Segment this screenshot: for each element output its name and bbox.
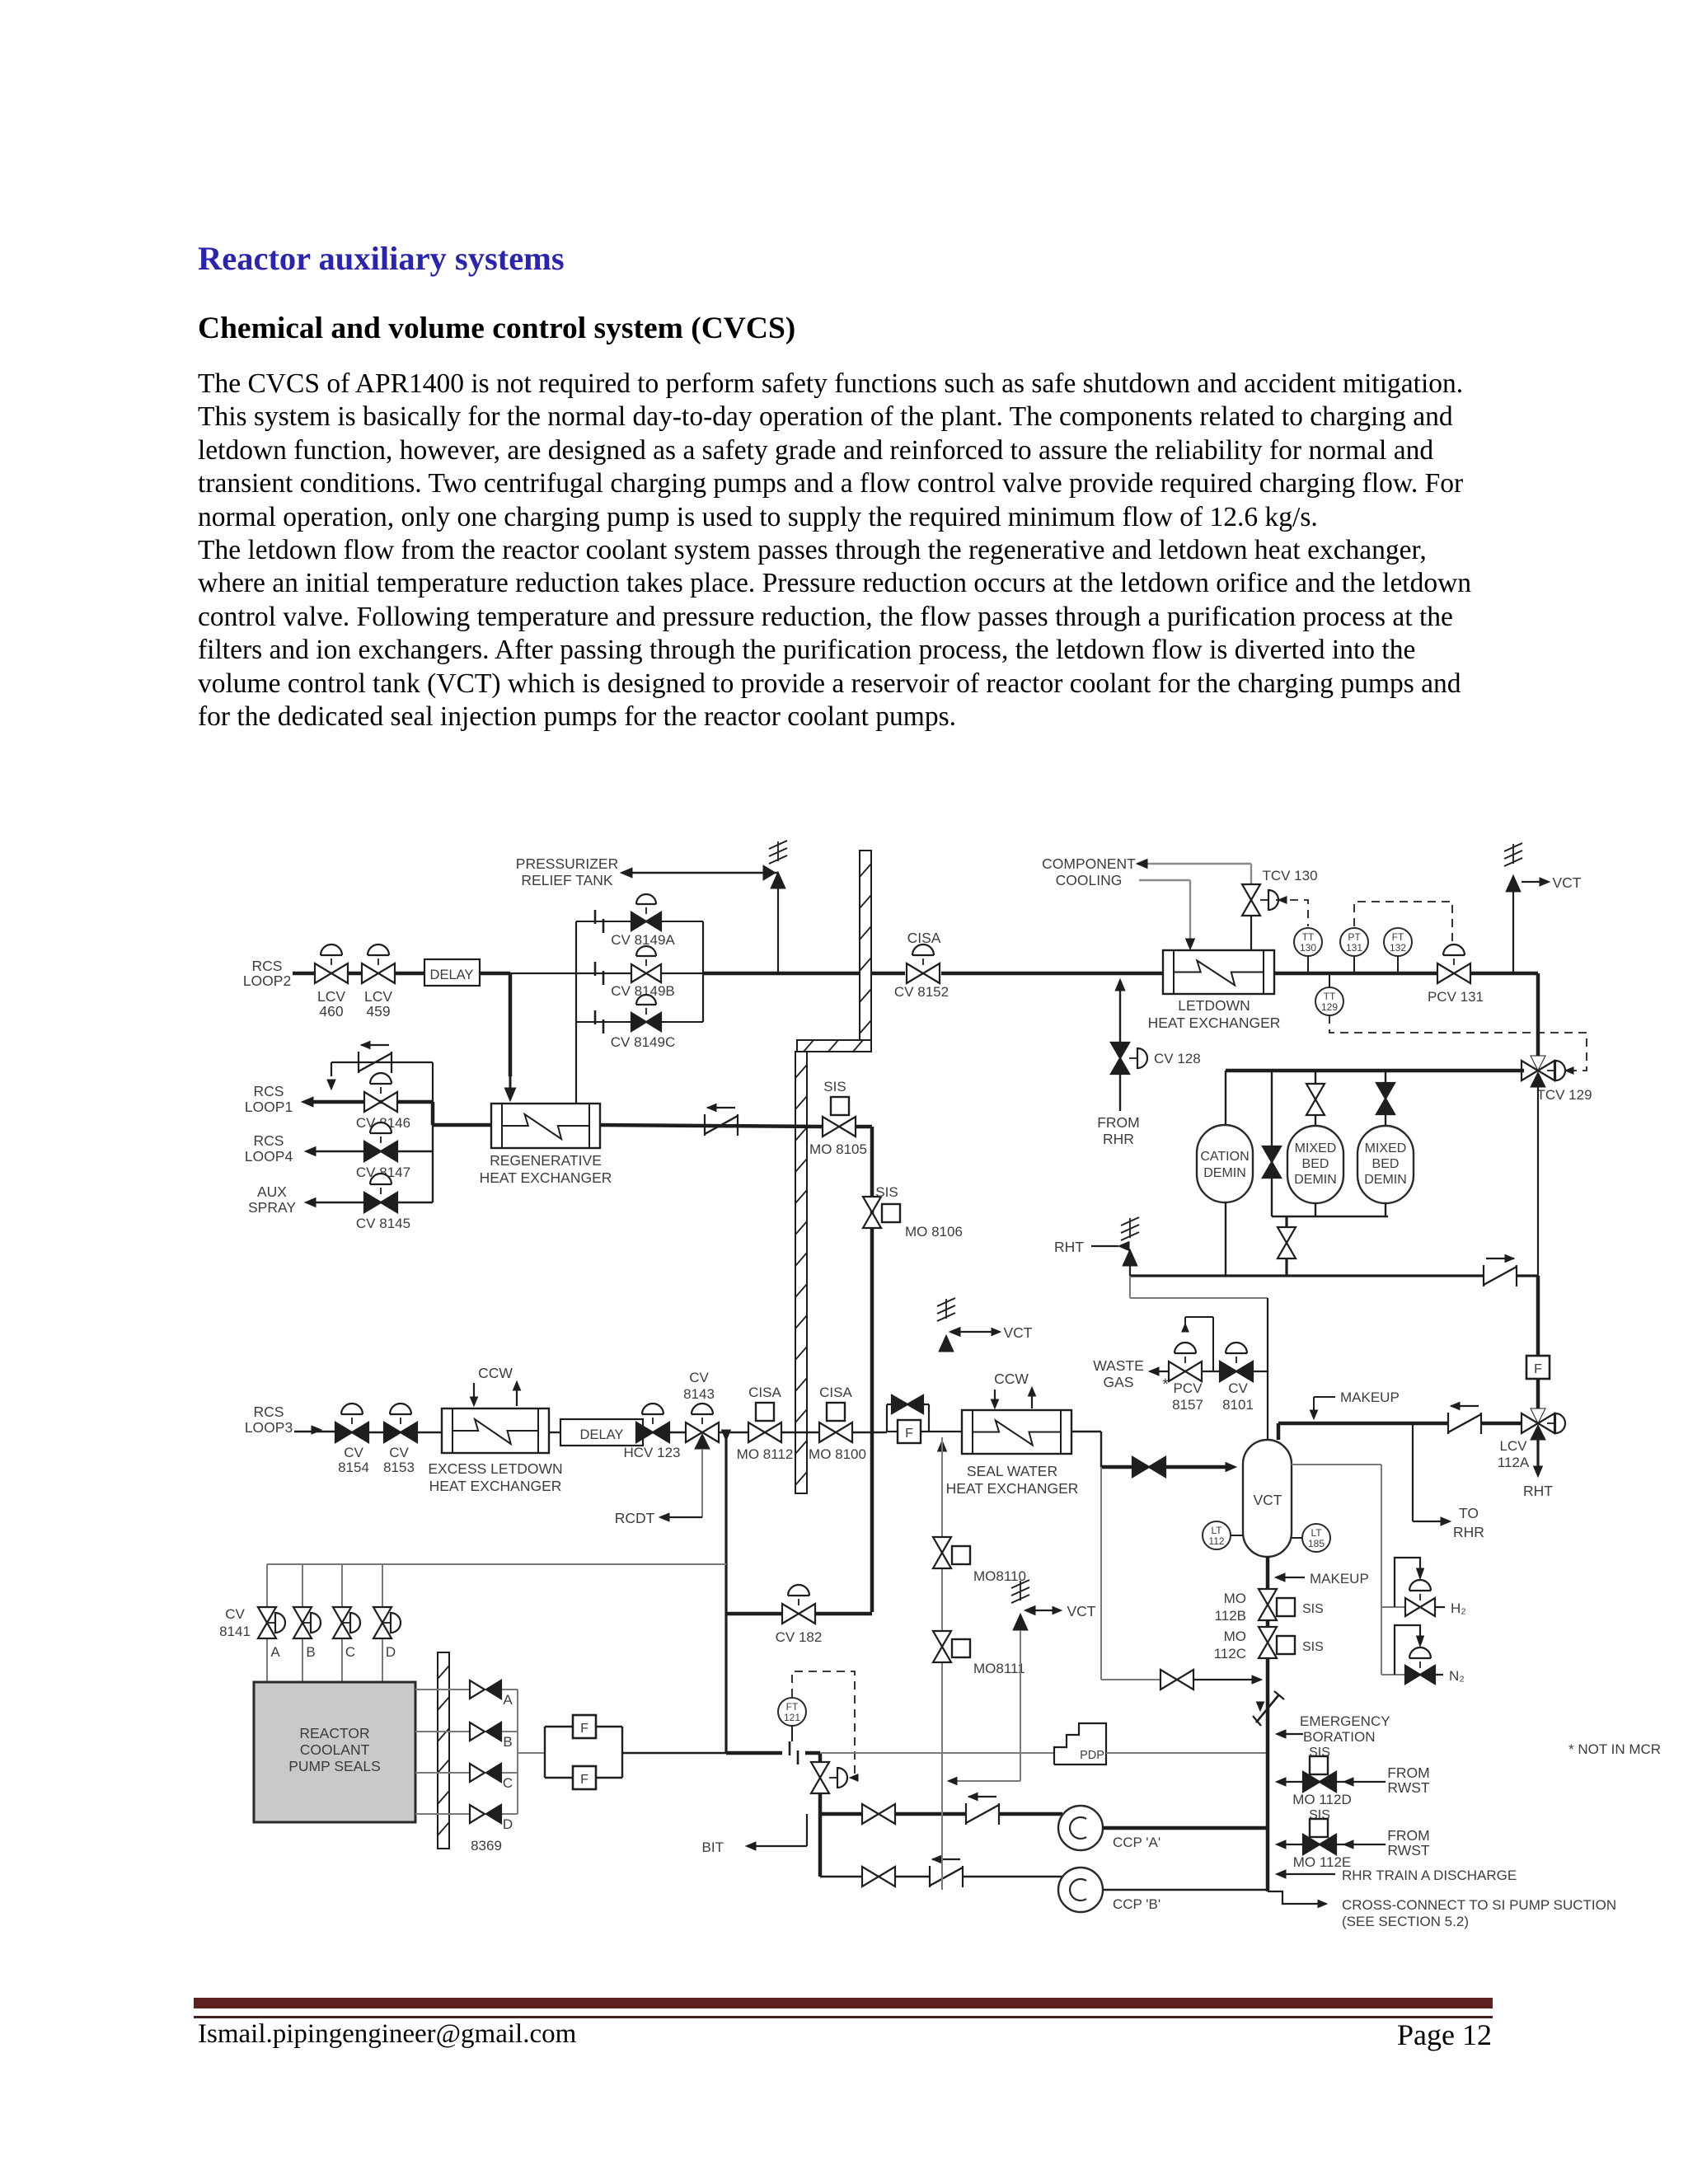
svg-text:129: 129 [1321, 1001, 1338, 1013]
valve CV 8143 (three-way) [686, 1422, 702, 1442]
wire RCS loop1 return [307, 1100, 433, 1104]
svg-text:LOOP1: LOOP1 [245, 1099, 293, 1115]
wire letdown from regen HX [600, 1125, 824, 1127]
instrument signal TT129 to TCV129 [1329, 1015, 1587, 1071]
wire AUX SPRAY [310, 1202, 433, 1203]
wire demin outlet [1130, 1274, 1484, 1277]
svg-text:459: 459 [366, 1003, 390, 1019]
svg-text:C: C [503, 1775, 513, 1791]
svg-text:(SEE SECTION 5.2): (SEE SECTION 5.2) [1342, 1914, 1469, 1929]
valve LCV 459 [362, 963, 378, 983]
delay coil DELAY [424, 959, 480, 986]
component cooling return [1139, 879, 1190, 881]
wire pressurizer relief branch [777, 888, 779, 973]
svg-text:MO8110: MO8110 [973, 1568, 1026, 1584]
wire cross-connect to SI pump suction [1268, 1891, 1322, 1904]
svg-text:CISA: CISA [819, 1385, 852, 1400]
valve [1306, 1084, 1325, 1099]
svg-text:HEAT EXCHANGER: HEAT EXCHANGER [946, 1480, 1079, 1497]
svg-text:8157: 8157 [1172, 1397, 1203, 1413]
svg-text:CV: CV [344, 1445, 363, 1460]
svg-text:FT: FT [786, 1701, 799, 1713]
wire seal return C [415, 1772, 470, 1774]
svg-text:PCV 131: PCV 131 [1428, 989, 1484, 1005]
check valve [1483, 1265, 1484, 1286]
wire CCP A discharge [1103, 1826, 1268, 1830]
svg-text:VCT: VCT [1254, 1492, 1282, 1508]
svg-text:BED: BED [1372, 1157, 1400, 1171]
wire arrow into regenerative HX [504, 1088, 515, 1101]
wire charging line [726, 1751, 782, 1755]
wire TCV129 bypass [1537, 1087, 1539, 1276]
orifice FT121 [789, 1741, 791, 1755]
svg-text:HEAT EXCHANGER: HEAT EXCHANGER [429, 1478, 562, 1494]
svg-text:LCV: LCV [364, 988, 392, 1005]
instrument signal TCV130 to TT130 [1276, 900, 1308, 926]
relief valve to VCT [1011, 1595, 1029, 1603]
svg-text:EMERGENCY: EMERGENCY [1300, 1713, 1390, 1729]
orifice branch C [576, 1021, 703, 1023]
relief valve to VCT (letdown line) [1512, 892, 1514, 973]
valve CV 8141B [293, 1607, 312, 1623]
svg-text:GAS: GAS [1104, 1374, 1134, 1390]
wire [431, 1102, 435, 1125]
wire [293, 972, 315, 976]
pump CCP A [1058, 1806, 1103, 1850]
junction charging line up-arrow [722, 1430, 731, 1441]
svg-text:MAKEUP: MAKEUP [1310, 1571, 1369, 1586]
component cooling supply arrow [1142, 863, 1251, 865]
check valve [929, 1866, 931, 1887]
valve [862, 1804, 879, 1824]
svg-text:PUMP SEALS: PUMP SEALS [288, 1758, 381, 1774]
svg-text:SIS: SIS [1302, 1602, 1324, 1616]
wire charging riser [724, 1437, 727, 1753]
valve N2 [1405, 1666, 1420, 1684]
svg-text:DELAY: DELAY [580, 1427, 624, 1442]
svg-text:PCV: PCV [1174, 1380, 1203, 1396]
svg-text:8369: 8369 [471, 1838, 502, 1854]
svg-text:TT: TT [1324, 991, 1336, 1002]
valve [1376, 1083, 1395, 1099]
svg-text:LCV: LCV [1499, 1438, 1527, 1454]
wire [596, 1726, 622, 1727]
svg-text:RHT: RHT [1054, 1239, 1084, 1255]
instrument signal PT131 to PCV131 [1354, 902, 1452, 944]
svg-text:BED: BED [1302, 1157, 1329, 1171]
wire [1165, 1465, 1228, 1469]
svg-text:TT: TT [1302, 931, 1315, 943]
svg-text:RCS: RCS [254, 1083, 284, 1099]
valve VCT inlet [1132, 1457, 1149, 1477]
reactor coolant pump seals box [254, 1682, 415, 1822]
svg-text:DEMIN: DEMIN [1294, 1173, 1337, 1187]
wire to RHT [1536, 1440, 1539, 1470]
svg-text:F: F [1534, 1362, 1542, 1376]
check valve on suction header [1256, 1694, 1279, 1722]
svg-text:MAKEUP: MAKEUP [1340, 1390, 1400, 1405]
svg-text:CV 8145: CV 8145 [356, 1216, 410, 1231]
valve CV 8152 (CISA) [907, 963, 923, 983]
svg-text:112B: 112B [1215, 1608, 1246, 1624]
wire [348, 972, 362, 976]
wire gas manifold [1152, 1371, 1170, 1372]
svg-text:MO 8112: MO 8112 [737, 1446, 794, 1462]
svg-text:CV: CV [389, 1445, 409, 1460]
check valve 8369 B [470, 1722, 485, 1741]
valve HCV 123 [636, 1422, 653, 1442]
wire demin outlet header [1315, 1203, 1316, 1216]
valve [1160, 1670, 1177, 1690]
svg-text:CV 8149C: CV 8149C [611, 1034, 675, 1050]
svg-text:REGENERATIVE: REGENERATIVE [490, 1152, 602, 1169]
wire [636, 1432, 643, 1433]
svg-text:SEAL WATER: SEAL WATER [967, 1463, 1057, 1479]
valve CV 8141C [333, 1607, 351, 1623]
valve charging flow control [811, 1762, 829, 1778]
svg-text:F: F [905, 1427, 913, 1441]
svg-text:F: F [580, 1773, 588, 1787]
svg-text:BORATION: BORATION [1303, 1729, 1376, 1745]
seal water heat exchanger [962, 1410, 1071, 1454]
svg-text:MO8111: MO8111 [973, 1661, 1025, 1676]
letdown heat exchanger [1163, 950, 1274, 994]
pump CCP B [1058, 1868, 1103, 1912]
valve CV 8149C [631, 1013, 646, 1031]
wire [626, 872, 778, 874]
valve H2 [1405, 1598, 1420, 1616]
svg-text:HCV 123: HCV 123 [624, 1445, 681, 1460]
check valve [1447, 1413, 1449, 1434]
wire [1266, 1620, 1270, 1628]
valve TCV 130 [1242, 884, 1260, 900]
check valve [358, 1052, 359, 1073]
valve (filter bypass) [892, 1395, 907, 1413]
orifice branch A [576, 921, 703, 922]
instrument FT 121 [778, 1698, 806, 1726]
instrument PT 131 [1340, 928, 1368, 956]
orifice branch B [576, 972, 703, 974]
label MAKEUP (to VCT) [1279, 1577, 1305, 1578]
wire [480, 972, 510, 976]
wire seal return joins [938, 1441, 947, 1451]
svg-text:RCS: RCS [254, 1132, 284, 1149]
check valve [965, 1803, 967, 1825]
svg-text:CV 182: CV 182 [776, 1629, 823, 1645]
wire [856, 1125, 872, 1129]
valve MO8110 (SIS) [933, 1537, 951, 1553]
svg-text:FROM: FROM [1387, 1765, 1430, 1781]
check valve 8369 A [470, 1680, 485, 1699]
svg-text:WASTE: WASTE [1093, 1357, 1144, 1374]
valve CV 8141D [373, 1607, 392, 1623]
svg-text:MIXED: MIXED [1295, 1141, 1337, 1155]
svg-text:130: 130 [1300, 942, 1316, 954]
svg-text:AUX: AUX [257, 1183, 287, 1200]
wire seal injection header [267, 1563, 726, 1565]
valve CV 8149B [631, 964, 646, 982]
wire CV 182 line [726, 1612, 782, 1616]
wire TO RHR [1412, 1423, 1414, 1521]
containment wall at RCP seals [438, 1652, 449, 1849]
svg-text:RCS: RCS [252, 958, 283, 974]
relief valve to RHT [1129, 1266, 1131, 1276]
wire [510, 972, 576, 974]
valve CV 182 [782, 1604, 799, 1624]
svg-text:MO: MO [1224, 1629, 1246, 1644]
valve CV 8146 [364, 1092, 381, 1112]
relief valve seal return to VCT [937, 1313, 955, 1321]
svg-text:COOLANT: COOLANT [300, 1741, 370, 1758]
delay coil DELAY [560, 1419, 643, 1446]
svg-text:8153: 8153 [383, 1460, 415, 1475]
orifice [594, 962, 597, 976]
footer rule [194, 1998, 1493, 2008]
instrument LT 112 [1203, 1521, 1231, 1549]
instrument FT 132 [1384, 928, 1412, 956]
valve MO8111 (SIS) [933, 1631, 951, 1647]
svg-text:REACTOR: REACTOR [299, 1725, 369, 1741]
svg-text:8143: 8143 [683, 1386, 715, 1402]
valve MO 8112 (CISA) [748, 1422, 765, 1442]
H2 supply loop [1381, 1606, 1405, 1608]
svg-text:RWST: RWST [1387, 1779, 1430, 1796]
svg-text:SIS: SIS [823, 1079, 846, 1094]
wire seal injection branch A [266, 1564, 268, 1607]
wire PDP suction [820, 1752, 1054, 1754]
svg-text:LT: LT [1311, 1527, 1322, 1539]
svg-text:CATION: CATION [1200, 1150, 1249, 1164]
wire [1250, 916, 1252, 950]
svg-text:SIS: SIS [1302, 1640, 1324, 1654]
containment wall upper [860, 851, 871, 1040]
svg-text:* NOT IN MCR: * NOT IN MCR [1568, 1741, 1661, 1757]
seal filter loop [544, 1727, 546, 1778]
svg-text:MO 8100: MO 8100 [809, 1446, 866, 1462]
svg-text:MIXED: MIXED [1365, 1141, 1407, 1155]
svg-text:H₂: H₂ [1451, 1601, 1466, 1616]
wire charging pump suction header [1266, 1658, 1270, 1891]
svg-text:460: 460 [319, 1003, 343, 1019]
valve MO 8106 (SIS) [863, 1197, 881, 1212]
vessel CATION DEMIN [1197, 1125, 1253, 1202]
valve CV 8147 [364, 1141, 381, 1161]
valve CV 8145 [364, 1193, 381, 1212]
wire VCT outlet [1481, 1422, 1522, 1426]
wire seal return riser [941, 1437, 943, 1538]
wire seal injection branch C [341, 1564, 343, 1607]
valve [862, 1867, 879, 1886]
valve MO 112B (SIS) [1259, 1589, 1277, 1605]
svg-text:RELIEF TANK: RELIEF TANK [521, 872, 613, 888]
wire RCS loop4 return [310, 1151, 433, 1152]
svg-text:VCT: VCT [1067, 1603, 1096, 1619]
svg-text:C: C [345, 1644, 355, 1660]
svg-text:A: A [503, 1692, 513, 1708]
svg-text:FT: FT [1392, 931, 1404, 943]
wire seal return header [517, 1690, 518, 1814]
svg-text:RHR: RHR [1453, 1524, 1484, 1540]
svg-text:TCV 130: TCV 130 [1262, 868, 1317, 883]
orifice manifold right header [702, 921, 704, 1022]
valve CV 8101 [1220, 1361, 1236, 1381]
valve MO 8100 (CISA) [819, 1422, 836, 1442]
check valve 8369 C [470, 1764, 485, 1782]
wire seal return A [415, 1689, 470, 1690]
PCV8157 bypass loop [1185, 1316, 1213, 1318]
wire [368, 1432, 384, 1433]
wire [549, 1432, 560, 1433]
vessel VCT [1243, 1440, 1292, 1557]
wire seal return B [415, 1731, 470, 1732]
wire CCP B branch [820, 1876, 862, 1877]
svg-text:CV: CV [689, 1370, 709, 1385]
wire [1225, 1202, 1226, 1276]
svg-text:PT: PT [1348, 931, 1361, 943]
svg-text:MO 8106: MO 8106 [905, 1224, 963, 1240]
valve CV 128 from RHR [1119, 985, 1121, 1042]
relief valve to pressurizer relief tank [771, 872, 785, 888]
svg-text:D: D [386, 1644, 396, 1660]
regenerative heat exchanger [491, 1104, 600, 1148]
svg-text:VCT: VCT [1004, 1324, 1033, 1341]
flow element F [1526, 1356, 1550, 1379]
svg-text:CISA: CISA [907, 930, 941, 946]
svg-text:CCP 'A': CCP 'A' [1113, 1835, 1160, 1850]
valve [1263, 1146, 1281, 1162]
wire [1315, 1071, 1316, 1084]
check valve 8369 D [470, 1805, 485, 1823]
svg-text:HEAT EXCHANGER: HEAT EXCHANGER [480, 1169, 612, 1186]
svg-text:TO: TO [1459, 1505, 1479, 1521]
wire [1285, 1216, 1287, 1227]
svg-text:B: B [503, 1734, 512, 1750]
svg-text:VCT: VCT [1553, 874, 1582, 891]
svg-text:EXCESS LETDOWN: EXCESS LETDOWN [428, 1460, 562, 1477]
valve LCV 460 [315, 963, 331, 983]
vessel MIXED BED DEMIN 2 [1357, 1126, 1414, 1203]
svg-text:CCP 'B': CCP 'B' [1113, 1896, 1160, 1912]
wire [294, 1431, 335, 1432]
wire RHR train A discharge [1281, 1873, 1335, 1875]
valve CV 8141A [258, 1607, 276, 1623]
svg-text:DEMIN: DEMIN [1364, 1173, 1407, 1187]
wire [1536, 1379, 1540, 1408]
svg-text:8154: 8154 [338, 1460, 369, 1475]
svg-text:RHR TRAIN A DISCHARGE: RHR TRAIN A DISCHARGE [1342, 1868, 1517, 1883]
wire [1274, 972, 1437, 976]
svg-text:MO 8105: MO 8105 [809, 1141, 867, 1157]
instrument TT 129 [1315, 987, 1343, 1015]
wire [669, 1432, 687, 1433]
wire [1271, 1071, 1273, 1146]
pump PDP [1054, 1723, 1106, 1765]
svg-text:LOOP2: LOOP2 [243, 972, 291, 989]
svg-text:D: D [503, 1816, 513, 1832]
containment wall lower [795, 1052, 807, 1493]
svg-text:RWST: RWST [1387, 1842, 1430, 1858]
svg-text:DEMIN: DEMIN [1203, 1166, 1246, 1180]
svg-text:CCW: CCW [478, 1365, 513, 1381]
check valve bypass loop [331, 1062, 433, 1063]
wire [1020, 1630, 1021, 1781]
svg-text:SIS: SIS [875, 1184, 898, 1200]
svg-text:CISA: CISA [748, 1385, 781, 1400]
svg-text:112A: 112A [1498, 1455, 1530, 1470]
wire [818, 1753, 823, 1762]
svg-text:RHR: RHR [1103, 1131, 1134, 1147]
wire [852, 1432, 887, 1433]
wire [703, 972, 860, 976]
orifice [594, 1010, 597, 1024]
wire VCT sparge [1292, 1464, 1381, 1465]
svg-text:CV 8152: CV 8152 [894, 984, 949, 1000]
wire [941, 972, 1163, 976]
svg-text:MO 112D: MO 112D [1292, 1792, 1352, 1807]
filter F [573, 1715, 596, 1738]
svg-text:132: 132 [1390, 942, 1406, 954]
svg-text:CV 128: CV 128 [1154, 1051, 1201, 1066]
valve MO 112C (SIS) [1259, 1627, 1277, 1643]
wire CCP A suction [820, 1812, 862, 1816]
svg-text:TCV 129: TCV 129 [1536, 1087, 1592, 1103]
valve CV 8153 [384, 1422, 401, 1442]
svg-text:185: 185 [1308, 1538, 1325, 1549]
excess letdown heat exchanger [442, 1408, 549, 1453]
svg-text:PDP: PDP [1080, 1749, 1104, 1762]
svg-text:LT: LT [1211, 1525, 1222, 1536]
wire from RHR [1119, 1075, 1121, 1111]
valve MO 8105 (SIS) [823, 1117, 839, 1137]
svg-text:B: B [306, 1644, 315, 1660]
wire seal injection branch B [302, 1564, 303, 1607]
svg-text:RHT: RHT [1523, 1483, 1553, 1499]
svg-text:RCDT: RCDT [615, 1510, 655, 1526]
svg-text:PRESSURIZER: PRESSURIZER [516, 855, 618, 872]
svg-text:CCW: CCW [994, 1371, 1029, 1387]
svg-text:112C: 112C [1214, 1646, 1246, 1661]
svg-text:LOOP3: LOOP3 [245, 1419, 293, 1436]
wire [1385, 1071, 1386, 1083]
svg-text:CV: CV [225, 1606, 245, 1622]
label MAKEUP (VCT outlet) [1314, 1396, 1335, 1398]
svg-text:HEAT EXCHANGER: HEAT EXCHANGER [1148, 1015, 1281, 1031]
wire [622, 1752, 726, 1754]
wire seal return D [415, 1813, 470, 1815]
wire [1470, 972, 1538, 976]
svg-text:8101: 8101 [1222, 1397, 1254, 1413]
svg-text:LOOP4: LOOP4 [245, 1148, 293, 1165]
svg-text:CROSS-CONNECT TO SI PUMP SUCTI: CROSS-CONNECT TO SI PUMP SUCTION [1342, 1897, 1616, 1913]
svg-text:112: 112 [1208, 1535, 1224, 1547]
wire demin feed [1226, 1069, 1524, 1073]
junction from RHR [1115, 979, 1125, 991]
instrument LT 185 [1302, 1524, 1330, 1552]
svg-text:COMPONENT: COMPONENT [1042, 855, 1136, 872]
N2 supply loop [1381, 1674, 1405, 1675]
wire [781, 1432, 819, 1433]
svg-text:LETDOWN: LETDOWN [1178, 997, 1250, 1014]
valve PCV 131 [1437, 963, 1454, 983]
svg-text:CV 8149A: CV 8149A [611, 932, 675, 948]
svg-text:SPRAY: SPRAY [248, 1199, 296, 1216]
vessel MIXED BED DEMIN 1 [1287, 1126, 1343, 1203]
filter F with bypass [898, 1420, 921, 1443]
svg-text:131: 131 [1346, 942, 1362, 954]
wire CCP B discharge [1103, 1889, 1268, 1891]
svg-text:*: * [1162, 1376, 1169, 1394]
svg-text:DELAY: DELAY [430, 968, 474, 982]
